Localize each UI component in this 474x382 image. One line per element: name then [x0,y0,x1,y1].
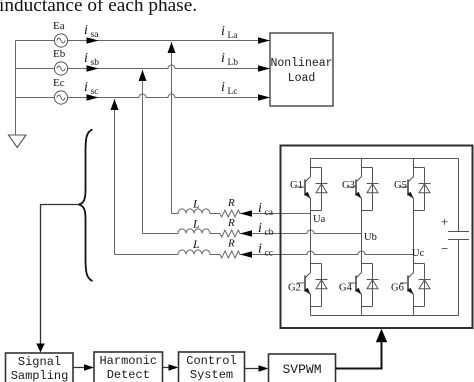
svg-text:sc: sc [91,87,99,97]
Harmonic Detect box [94,352,163,382]
svg-text:Harmonic: Harmonic [99,354,157,368]
svg-text:G3: G3 [342,180,355,191]
branch B: resistor R [220,230,362,237]
svg-text:Ec: Ec [53,77,65,89]
wire tap C (vertical) [114,99,116,255]
svg-text:Signal: Signal [18,355,61,369]
DC link capacitor [448,159,469,316]
Nonlinear Load box [270,33,333,106]
IGBT G1 [297,168,328,211]
AC source Ea [54,34,67,47]
svg-text:R: R [227,197,235,209]
Signal Sampling box [6,353,74,382]
svg-text:SVPWM: SVPWM [282,362,321,377]
wire tap A (vertical) [171,42,173,214]
svg-text:Uc: Uc [412,248,425,259]
arrow i_sc on phase C [87,94,99,101]
DC bottom rail wire [311,315,459,317]
svg-text:i: i [258,201,262,216]
arrow control to svpwm [245,368,260,370]
arrow sampling to harmonic [73,367,85,369]
svg-text:Lb: Lb [228,58,239,68]
wire tap B (vertical) [142,70,144,234]
arrow i_La into load [258,37,270,44]
wire phase A line [16,40,271,42]
svg-text:G4: G4 [339,283,353,294]
svg-text:System: System [190,368,233,382]
svg-text:R: R [227,238,235,250]
leg 1 wires [310,159,312,316]
svg-text:i: i [84,23,88,38]
svg-text:i: i [258,221,262,236]
wire brace to sampling [41,205,79,346]
DC top rail wire [311,158,459,160]
svg-text:Lc: Lc [228,87,238,97]
brace grouping sampled currents [79,130,93,282]
svg-text:inductance of each phase.: inductance of each phase. [0,0,197,16]
wire phase C line (hops over taps B and A) [16,94,271,98]
arrow i_Lc into load [258,94,270,101]
svg-text:G6: G6 [391,283,404,294]
AC source Eb [54,62,67,75]
svg-text:Nonlinear: Nonlinear [270,57,332,70]
svg-text:ca: ca [265,208,274,218]
AC source Ec [54,91,67,104]
svg-text:i: i [221,80,225,95]
svg-text:Load: Load [288,72,316,85]
svg-text:G5: G5 [394,180,407,191]
branch C: resistor R [220,251,414,258]
SVPWM box [269,354,336,382]
arrow i_cb [240,230,252,237]
branch C: inductor L [115,250,221,255]
svg-text:i: i [221,24,225,39]
svg-text:sa: sa [91,30,100,40]
leg 3 wires [413,159,415,316]
arrow i_Lb into load [258,65,270,72]
branch A: resistor R [220,210,311,217]
svg-text:i: i [221,51,225,66]
svg-text:cc: cc [265,249,273,259]
IGBT G5 [400,168,431,211]
svg-text:La: La [228,31,239,41]
svg-text:−: − [441,241,448,256]
svg-text:i: i [84,51,88,66]
left source bus wire [15,41,17,135]
IGBT G6 [400,264,431,307]
wire phase B line (hop over tap A) [16,65,271,68]
svg-text:i: i [258,242,262,257]
svg-text:Eb: Eb [53,48,66,60]
svg-text:Ea: Ea [53,20,65,32]
inverter outer box [281,146,473,329]
Control System box [179,352,245,382]
svg-text:+: + [441,214,448,229]
svg-text:L: L [192,197,200,211]
wire SVPWM to inverter [336,341,382,369]
IGBT G3 [348,168,379,211]
svg-text:L: L [192,217,200,231]
svg-text:R: R [227,217,235,229]
svg-text:sb: sb [91,58,100,68]
svg-text:Ua: Ua [313,214,326,225]
svg-text:G1: G1 [290,180,303,191]
arrow harmonic to control [163,367,170,369]
svg-text:Ub: Ub [364,232,377,243]
svg-text:G2: G2 [288,283,301,294]
IGBT G2 [297,264,328,307]
svg-text:Detect: Detect [107,368,150,382]
ground [9,135,27,148]
svg-text:L: L [192,237,200,251]
IGBT G4 [348,264,379,307]
svg-text:cb: cb [265,228,274,238]
branch A: inductor L [172,209,221,214]
arrow i_ca [240,210,252,217]
branch B: inductor L [143,229,221,234]
arrow i_cc [240,251,252,258]
leg 2 wires [361,159,363,316]
svg-text:i: i [84,80,88,95]
arrow i_sb on phase B [87,65,99,72]
svg-text:Sampling: Sampling [11,369,69,382]
svg-text:Control: Control [186,354,236,368]
arrow i_sa on phase A [87,37,99,44]
